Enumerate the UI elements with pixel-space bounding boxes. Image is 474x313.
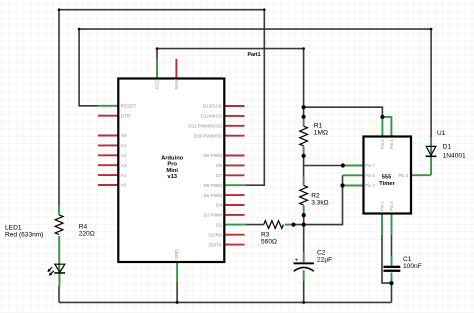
svg-text:D1/RX: D1/RX: [208, 232, 222, 237]
svg-text:D1: D1: [443, 144, 452, 151]
svg-text:3.3kΩ: 3.3kΩ: [311, 200, 328, 207]
svg-text:Mini: Mini: [166, 168, 178, 174]
svg-text:A3: A3: [121, 163, 127, 168]
svg-text:R3: R3: [261, 231, 270, 238]
svg-text:Pin 8: Pin 8: [380, 139, 385, 149]
svg-text:D9 PWM: D9 PWM: [204, 153, 223, 158]
svg-text:Part1: Part1: [248, 52, 261, 58]
svg-text:D13/SCK: D13/SCK: [203, 104, 223, 109]
svg-text:RAW: RAW: [174, 78, 179, 89]
svg-text:100nF: 100nF: [403, 263, 422, 270]
svg-text:C1: C1: [403, 256, 412, 263]
svg-text:D10 PWM/SS: D10 PWM/SS: [194, 133, 222, 138]
svg-text:Pin 1: Pin 1: [380, 201, 385, 211]
svg-text:RESET: RESET: [121, 104, 137, 109]
svg-text:D5 PWM: D5 PWM: [204, 193, 223, 198]
svg-text:Pin 5: Pin 5: [389, 201, 394, 211]
svg-text:v13: v13: [167, 174, 177, 180]
svg-text:D0/TX: D0/TX: [209, 242, 222, 247]
svg-text:Pin 7: Pin 7: [365, 163, 375, 168]
svg-text:DTR: DTR: [121, 113, 131, 118]
svg-text:560Ω: 560Ω: [261, 238, 277, 245]
svg-text:Pro: Pro: [167, 162, 177, 168]
svg-text:555: 555: [382, 175, 392, 181]
svg-text:D12/MISO: D12/MISO: [201, 114, 223, 119]
svg-text:R2: R2: [311, 193, 320, 200]
svg-text:GND: GND: [174, 249, 179, 260]
svg-text:22µF: 22µF: [317, 256, 332, 263]
svg-text:D4: D4: [216, 203, 222, 208]
svg-text:Pin 6: Pin 6: [365, 173, 375, 178]
svg-text:Pin 4: Pin 4: [389, 139, 394, 149]
svg-text:220Ω: 220Ω: [79, 231, 95, 238]
svg-text:C2: C2: [317, 249, 326, 256]
svg-text:R1: R1: [314, 123, 323, 130]
svg-text:LED1: LED1: [5, 225, 22, 232]
svg-text:D7: D7: [216, 173, 222, 178]
svg-text:D6 PWM: D6 PWM: [204, 183, 223, 188]
svg-text:1MΩ: 1MΩ: [314, 130, 328, 137]
svg-text:A0: A0: [121, 133, 127, 138]
svg-text:D3 PWM: D3 PWM: [204, 213, 223, 218]
svg-text:Pin 3: Pin 3: [398, 173, 408, 178]
svg-text:Arduino: Arduino: [161, 156, 184, 162]
svg-text:VCC: VCC: [155, 79, 160, 89]
svg-text:A5: A5: [121, 183, 127, 188]
svg-text:Pin 2: Pin 2: [365, 183, 375, 188]
svg-text:A4: A4: [121, 173, 127, 178]
svg-text:D2: D2: [216, 222, 222, 227]
svg-text:+: +: [295, 258, 299, 264]
svg-text:U1: U1: [437, 130, 446, 137]
svg-text:A2: A2: [121, 153, 127, 158]
svg-text:D8: D8: [216, 163, 222, 168]
svg-text:A1: A1: [121, 143, 127, 148]
svg-text:D11 PWM/MOSI: D11 PWM/MOSI: [188, 124, 222, 129]
svg-text:1N4001: 1N4001: [443, 153, 466, 160]
svg-text:R4: R4: [79, 224, 88, 231]
svg-text:Timer: Timer: [379, 181, 395, 187]
svg-text:Red (633nm): Red (633nm): [5, 232, 43, 239]
